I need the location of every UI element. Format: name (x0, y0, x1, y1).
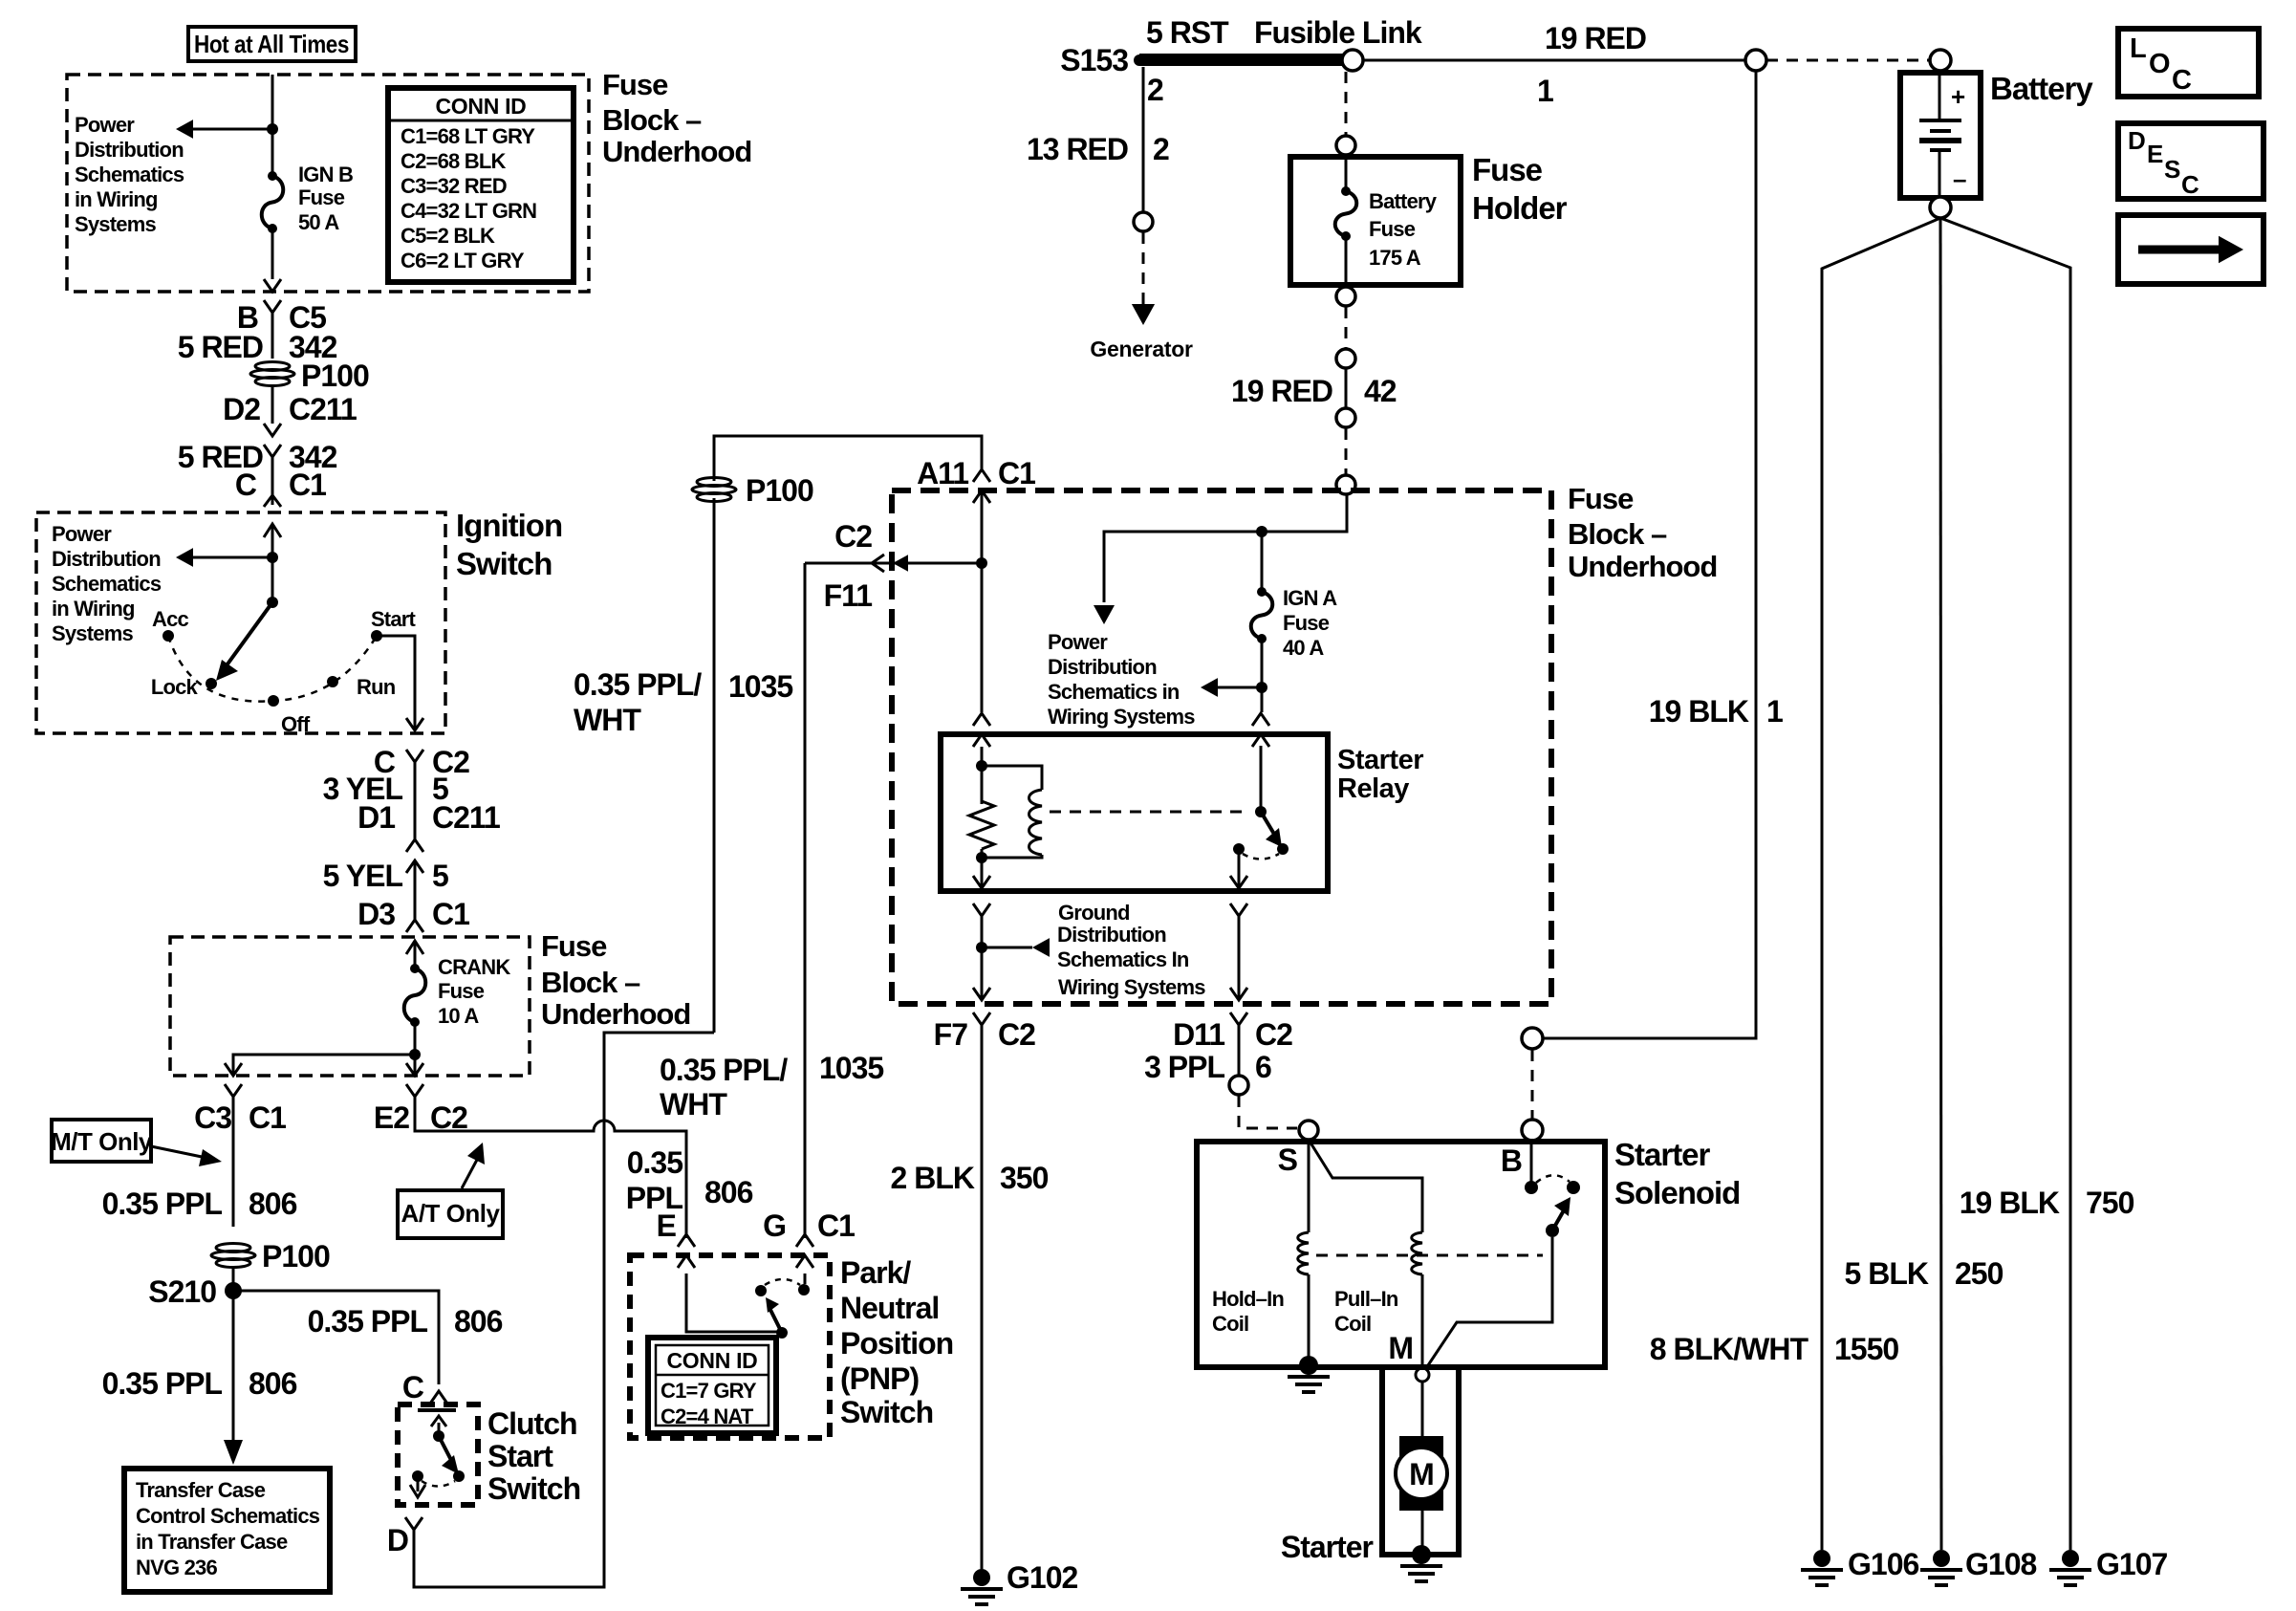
svg-text:D11: D11 (1173, 1017, 1224, 1052)
label: Park/Neutral Position (PNP) Switch (840, 1255, 953, 1429)
svg-text:S: S (2164, 155, 2180, 184)
svg-text:Battery: Battery (1990, 71, 2093, 106)
svg-text:Schematics: Schematics (52, 572, 162, 596)
svg-text:Transfer Case: Transfer Case (136, 1478, 266, 1502)
svg-text:Start: Start (371, 607, 417, 631)
svg-text:1550: 1550 (1834, 1332, 1898, 1366)
svg-text:Relay: Relay (1337, 773, 1409, 804)
svg-text:S: S (1278, 1143, 1298, 1177)
svg-text:M: M (1388, 1331, 1413, 1365)
node: entry to fuse block (1336, 475, 1355, 494)
wire 13 RED down to generator (1142, 67, 1145, 212)
svg-text:2 BLK: 2 BLK (891, 1161, 975, 1195)
node + arrow to power distribution note (1256, 682, 1267, 693)
ignition switch box (dashed) (36, 512, 445, 733)
svg-text:CONN ID: CONN ID (435, 94, 526, 119)
svg-text:5: 5 (432, 859, 448, 893)
wire: fuse out tee (414, 1022, 417, 1076)
svg-text:WHT: WHT (660, 1087, 727, 1121)
node: junction (267, 123, 278, 135)
svg-text:Run: Run (357, 675, 396, 699)
wire F7 leg below relay (981, 916, 984, 1000)
label box: A/T Only (398, 1190, 503, 1238)
wire A11 leg down to relay (981, 490, 984, 712)
svg-text:Position: Position (840, 1326, 953, 1361)
svg-text:0.35: 0.35 (627, 1145, 682, 1180)
note: Ground Distribution Schematics In Wiring Systems (1057, 901, 1205, 999)
svg-text:P100: P100 (746, 473, 813, 508)
svg-text:806: 806 (249, 1366, 297, 1401)
svg-text:Wiring Systems: Wiring Systems (1058, 975, 1205, 999)
svg-text:Switch: Switch (840, 1395, 933, 1429)
connector C211 inline (264, 424, 281, 436)
ground G107 (2062, 1550, 2079, 1567)
svg-text:6: 6 (1255, 1050, 1271, 1084)
svg-text:Hot at All Times: Hot at All Times (194, 30, 349, 58)
svg-text:B: B (1501, 1143, 1522, 1178)
svg-text:Hold–In: Hold–In (1212, 1287, 1284, 1311)
svg-text:250: 250 (1955, 1256, 2004, 1291)
wire: D return to A11 riser (414, 1033, 714, 1587)
svg-text:806: 806 (249, 1186, 297, 1221)
svg-text:19 RED: 19 RED (1545, 21, 1646, 55)
wire: feed bus inside fuse block (1104, 494, 1347, 602)
wire 2 BLK 350 to G102 (981, 1025, 984, 1569)
dashed wire: link to fuse holder (1345, 72, 1348, 135)
relay output arrow at box bottom (right) (1238, 849, 1241, 888)
svg-text:C1: C1 (998, 456, 1035, 490)
svg-text:C211: C211 (432, 800, 500, 835)
arrow from A/T Only to E2 wire (462, 1160, 477, 1188)
node (267, 552, 278, 563)
svg-text:1035: 1035 (819, 1051, 883, 1085)
contact Acc (162, 630, 174, 642)
connector marks entering relay (right) (1252, 713, 1269, 726)
component box: Fuse Holder (1290, 157, 1461, 285)
solenoid switch arm (1552, 1210, 1564, 1230)
ground at starter (1412, 1545, 1431, 1564)
svg-text:Schematics in: Schematics in (1048, 680, 1180, 704)
svg-text:Block –: Block – (541, 966, 640, 999)
svg-text:Generator: Generator (1090, 337, 1193, 361)
node: C2/F11 tee (976, 557, 987, 569)
svg-text:C: C (235, 468, 257, 502)
wire 5 YEL 5 (414, 860, 417, 921)
solenoid actuation dashed line (1316, 1254, 1543, 1257)
svg-text:(PNP): (PNP) (840, 1361, 919, 1396)
wire into CRANK fuse (414, 941, 417, 969)
contact Start (371, 630, 382, 642)
svg-text:O: O (2149, 49, 2170, 79)
component box: Starter (1382, 1367, 1459, 1555)
PNP internals: E leg (686, 1274, 782, 1332)
positions arc (dashed) (168, 636, 377, 702)
relay coil (982, 766, 1042, 790)
svg-text:8 BLK/WHT: 8 BLK/WHT (1650, 1332, 1809, 1366)
svg-text:Pull–In: Pull–In (1334, 1287, 1398, 1311)
relay output arrow at box bottom (left) (981, 858, 984, 888)
wire from S210 to clutch start switch (233, 1291, 439, 1384)
svg-text:40 A: 40 A (1283, 636, 1324, 660)
svg-text:Distribution: Distribution (75, 138, 184, 162)
svg-text:0.35 PPL: 0.35 PPL (308, 1304, 428, 1339)
wire+arrow to power distribution (189, 556, 272, 559)
label: Fuse Block - Underhood (top) (602, 68, 751, 168)
svg-text:Wiring Systems: Wiring Systems (1048, 705, 1195, 729)
wire: Start output with arrow at box bottom (377, 636, 415, 730)
svg-text:M/T Only: M/T Only (51, 1127, 153, 1156)
node: S terminal (1299, 1121, 1318, 1140)
wire 19 BLK 1 from junction down to solenoid B (1544, 71, 1756, 1038)
svg-text:A11: A11 (917, 456, 968, 490)
component box: Starter Relay (941, 734, 1328, 891)
svg-text:Distribution: Distribution (1048, 655, 1157, 679)
node: fusible link right terminal (1342, 50, 1363, 71)
svg-text:Switch: Switch (456, 546, 552, 581)
svg-text:Coil: Coil (1334, 1312, 1371, 1336)
wire 0.35 PPL/WHT 1035 riser to P100 and A11 (713, 498, 716, 1033)
svg-text:–: – (1953, 164, 1966, 193)
wire D11 leg below relay (1238, 916, 1241, 1000)
svg-text:1: 1 (1766, 694, 1783, 729)
wire 3 YEL 5 (414, 762, 417, 839)
svg-text:C1=7 GRY: C1=7 GRY (661, 1379, 757, 1403)
wire+arrow to power distribution (189, 128, 272, 131)
svg-text:D2: D2 (223, 392, 260, 426)
svg-text:Schematics In: Schematics In (1057, 947, 1189, 971)
svg-text:Block –: Block – (602, 103, 702, 137)
svg-text:Fuse: Fuse (298, 185, 345, 209)
svg-text:Coil: Coil (1212, 1312, 1248, 1336)
svg-text:Underhood: Underhood (1568, 550, 1717, 583)
relay actuation dashed line (1050, 811, 1245, 814)
svg-text:5 BLK: 5 BLK (1845, 1256, 1929, 1291)
svg-text:C1=68 LT GRY: C1=68 LT GRY (401, 124, 535, 148)
svg-text:13 RED: 13 RED (1027, 132, 1128, 166)
svg-text:Fuse: Fuse (1568, 482, 1634, 515)
icon box: DESC (2118, 123, 2264, 199)
svg-text:Power: Power (52, 522, 112, 546)
svg-text:C1: C1 (249, 1100, 286, 1135)
svg-text:Power: Power (75, 113, 135, 137)
contact Off (268, 695, 279, 707)
svg-text:CONN ID: CONN ID (666, 1348, 757, 1373)
svg-text:Ground: Ground (1058, 901, 1130, 925)
svg-text:Neutral: Neutral (840, 1291, 939, 1325)
connector C1 pin C3 (left exit) (225, 1063, 242, 1076)
wire: hot feed (271, 75, 274, 176)
svg-text:50 A: 50 A (298, 210, 339, 234)
svg-text:Fusible Link: Fusible Link (1254, 15, 1422, 50)
svg-text:CRANK: CRANK (438, 955, 510, 979)
battery plates (1919, 119, 1961, 122)
relay coil branch node (981, 747, 984, 804)
svg-text:M: M (1409, 1457, 1434, 1491)
svg-text:Distribution: Distribution (1057, 923, 1166, 947)
svg-text:E2: E2 (374, 1100, 409, 1135)
label box: Hot at All Times (188, 27, 356, 61)
svg-text:Power: Power (1048, 630, 1108, 654)
svg-text:Holder: Holder (1472, 190, 1568, 226)
svg-text:Lock: Lock (151, 675, 199, 699)
svg-text:in Transfer Case: in Transfer Case (136, 1530, 288, 1554)
node + arrow to ground distribution note (976, 942, 987, 953)
clutch start switch box (dashed) (398, 1404, 478, 1505)
fuse IGN B 50 A (268, 171, 277, 181)
connector G into PNP (796, 1234, 813, 1247)
svg-text:C5=2 BLK: C5=2 BLK (401, 224, 495, 248)
arrow from M/T Only to wire (151, 1146, 206, 1158)
connector C1 pin C (264, 495, 281, 507)
svg-text:C2=68 BLK: C2=68 BLK (401, 149, 506, 173)
svg-text:G107: G107 (2096, 1547, 2167, 1581)
svg-text:Starter: Starter (1281, 1530, 1374, 1564)
label: Ignition Switch (456, 508, 562, 581)
svg-text:D3: D3 (357, 897, 395, 931)
svg-text:C2: C2 (834, 519, 872, 554)
contact Run (327, 676, 338, 687)
svg-text:C6=2 LT GRY: C6=2 LT GRY (401, 249, 525, 272)
svg-text:5 RST: 5 RST (1146, 15, 1229, 50)
ground G106 (1813, 1550, 1830, 1567)
fuse IGN A 40 A (1257, 587, 1267, 597)
svg-text:C3: C3 (194, 1100, 231, 1135)
svg-text:5 RED: 5 RED (178, 330, 263, 364)
svg-text:F7: F7 (934, 1017, 968, 1052)
connector P100 lower (211, 1244, 255, 1268)
wire 0.35 PPL/WHT 1035 (to PNP G) (804, 563, 807, 1238)
svg-text:in Wiring: in Wiring (52, 597, 135, 620)
wire E2 to PNP switch E with hop over riser (415, 1097, 686, 1238)
PNP G leg (804, 1274, 807, 1284)
node: 19 RED junction (1745, 50, 1766, 71)
wire motor to ground (1421, 1511, 1424, 1549)
wire 3 PPL 6 (1238, 1025, 1241, 1076)
svg-text:WHT: WHT (574, 703, 641, 737)
connector C2 pin E2 (right exit) (406, 1063, 423, 1076)
svg-text:C2: C2 (1255, 1017, 1292, 1052)
fuse block underhood box1 (dashed) (67, 75, 589, 292)
svg-text:Park/: Park/ (840, 1255, 911, 1290)
clutch switch contacts (418, 1408, 456, 1412)
svg-text:Battery: Battery (1369, 189, 1438, 213)
ground G102 (973, 1569, 990, 1586)
connector P100 (middle) (692, 478, 736, 502)
svg-text:G108: G108 (1965, 1547, 2036, 1581)
svg-text:Systems: Systems (52, 621, 133, 645)
svg-text:+: + (1951, 82, 1965, 111)
svg-text:10 A: 10 A (438, 1004, 479, 1028)
svg-text:Clutch: Clutch (487, 1406, 577, 1441)
svg-text:3 PPL: 3 PPL (1144, 1050, 1224, 1084)
svg-text:Underhood: Underhood (541, 997, 690, 1031)
svg-text:806: 806 (704, 1175, 753, 1209)
svg-text:C2=4 NAT: C2=4 NAT (661, 1404, 754, 1428)
connector P100 upper (250, 362, 294, 386)
wire M to motor (1421, 1382, 1424, 1436)
wire 5 RED 342 (upper) (271, 313, 274, 359)
svg-text:NVG 236: NVG 236 (136, 1556, 217, 1579)
svg-text:G106: G106 (1848, 1547, 1918, 1581)
fuse CRANK 10 A (410, 964, 420, 973)
svg-text:1035: 1035 (728, 669, 792, 704)
svg-text:Distribution: Distribution (52, 547, 161, 571)
relay contacts + dashed arc (1233, 843, 1245, 855)
svg-text:in Wiring: in Wiring (75, 187, 158, 211)
wire 5 RED 342 (lower) (271, 457, 274, 505)
connector C211 inline (yel) (406, 839, 423, 852)
component box: Transfer Case Control Schematics in Transfer Case NVG 236 (124, 1469, 330, 1592)
connector C5 pin B (264, 279, 281, 292)
svg-text:2: 2 (1147, 73, 1163, 107)
svg-text:19 BLK: 19 BLK (1649, 694, 1749, 729)
PNP contacts + dashed arc (755, 1285, 767, 1296)
svg-text:750: 750 (2086, 1186, 2134, 1220)
note: Power Distribution Schematics in Wiring Systems (1048, 630, 1195, 729)
fuse block underhood box3 (dashed, main) (892, 490, 1551, 1004)
label: Fuse Block - Underhood (main) (1568, 482, 1717, 583)
wire: fuse out (271, 229, 274, 279)
svg-text:P100: P100 (301, 359, 369, 393)
ground G108 (1933, 1550, 1950, 1567)
svg-text:Ignition: Ignition (456, 508, 562, 543)
wire 19 RED 42 chain below holder (1336, 287, 1355, 306)
svg-text:Start: Start (487, 1439, 553, 1473)
svg-text:C1: C1 (432, 897, 469, 931)
connector C2 pin C (406, 750, 423, 762)
svg-text:1: 1 (1537, 74, 1553, 108)
note: Power Distribution Schematics (box1) (75, 113, 184, 236)
svg-text:Fuse: Fuse (438, 979, 485, 1003)
svg-text:42: 42 (1364, 374, 1397, 408)
connector D11/C2 exit (1230, 988, 1247, 1000)
connector F7/C2 exit (973, 988, 990, 1000)
svg-text:D: D (387, 1523, 408, 1557)
wire: feed into switch (271, 524, 274, 602)
motor M symbol (1399, 1436, 1443, 1511)
svg-text:F11: F11 (824, 578, 873, 613)
svg-text:Starter: Starter (1614, 1137, 1711, 1172)
svg-text:Solenoid: Solenoid (1614, 1175, 1740, 1210)
svg-text:E: E (2147, 140, 2163, 168)
contact Lock (206, 678, 217, 689)
svg-text:Off: Off (281, 712, 311, 736)
fuse block underhood box2 (dashed, CRANK) (170, 937, 530, 1076)
relay resistor (969, 801, 994, 849)
svg-text:0.35 PPL: 0.35 PPL (102, 1366, 223, 1401)
label box: M/T Only (51, 1120, 153, 1162)
wire 0.35 PPL 806 (upper MT) (232, 1097, 235, 1227)
svg-text:Fuse: Fuse (1283, 611, 1330, 635)
icon box: LOC (2118, 29, 2259, 97)
svg-text:Control Schematics: Control Schematics (136, 1504, 320, 1528)
svg-text:C1: C1 (817, 1208, 855, 1243)
svg-text:IGN A: IGN A (1283, 586, 1337, 610)
svg-text:Starter: Starter (1337, 745, 1423, 775)
CONN ID table 1 (388, 88, 574, 282)
node: battery negative (1930, 197, 1951, 218)
svg-text:D: D (2128, 126, 2145, 155)
svg-text:C: C (402, 1370, 424, 1404)
svg-text:C: C (2172, 65, 2192, 96)
node: switch pivot (267, 597, 278, 608)
svg-text:L: L (2130, 33, 2146, 64)
relay switch common (1260, 746, 1263, 812)
dashed wire to solenoid S (1239, 1096, 1297, 1128)
svg-text:0.35 PPL: 0.35 PPL (102, 1186, 223, 1221)
svg-text:806: 806 (454, 1304, 503, 1339)
svg-text:P100: P100 (262, 1239, 330, 1274)
node: IGN A tap (1256, 526, 1267, 537)
connector marks entering relay (left) (973, 713, 990, 726)
ground at solenoid case (1299, 1356, 1318, 1375)
svg-text:Fuse: Fuse (602, 68, 668, 101)
CONN ID table 2 (648, 1338, 776, 1433)
svg-text:A/T Only: A/T Only (401, 1199, 501, 1228)
note: Power Distribution Schematics (ignition) (52, 522, 162, 645)
svg-text:C4=32 LT GRN: C4=32 LT GRN (401, 199, 536, 223)
fuse: Battery Fuse 175 A (1341, 186, 1351, 196)
dashed wire to battery (1766, 59, 1930, 62)
svg-text:S153: S153 (1060, 43, 1128, 77)
PNP moving contact arm (770, 1310, 782, 1333)
svg-text:C211: C211 (289, 392, 357, 426)
connector C1 pin D3 (406, 920, 423, 932)
svg-text:Systems: Systems (75, 212, 156, 236)
battery ground feeders (1822, 218, 1940, 1550)
svg-text:C1: C1 (289, 468, 326, 502)
svg-text:19 BLK: 19 BLK (1960, 1186, 2060, 1220)
switch arm arrow (227, 602, 272, 665)
label: Fuse Block - Underhood (crank) (541, 929, 690, 1031)
svg-text:Fuse: Fuse (1369, 217, 1416, 241)
svg-text:Acc: Acc (152, 607, 189, 631)
hold-in coil leg (1308, 1140, 1310, 1232)
svg-text:0.35 PPL/: 0.35 PPL/ (660, 1053, 788, 1087)
svg-text:IGN B: IGN B (298, 163, 353, 186)
svg-text:175 A: 175 A (1369, 246, 1421, 270)
connector A11 entering fuse block (973, 469, 990, 482)
svg-text:E: E (657, 1208, 677, 1243)
wire C2/F11 horizontal (805, 562, 982, 565)
svg-text:Block –: Block – (1568, 517, 1667, 551)
svg-text:350: 350 (1000, 1161, 1049, 1195)
wire from switch to M terminal (1426, 1237, 1552, 1368)
wire 19 RED to right (1363, 59, 1745, 62)
pull-in coil leg (1309, 1140, 1422, 1232)
svg-text:5 YEL: 5 YEL (323, 859, 403, 893)
svg-text:G102: G102 (1007, 1560, 1077, 1595)
icon box: forward arrow (2118, 215, 2264, 284)
svg-text:19 RED: 19 RED (1231, 374, 1332, 408)
svg-text:G: G (763, 1208, 786, 1243)
svg-text:2: 2 (1153, 132, 1169, 166)
component box: Starter Solenoid (1197, 1142, 1605, 1367)
svg-text:0.35 PPL/: 0.35 PPL/ (574, 667, 702, 702)
svg-text:Switch: Switch (487, 1471, 580, 1506)
svg-text:C: C (2181, 170, 2199, 199)
svg-text:C2: C2 (998, 1017, 1035, 1052)
PNP switch box (dashed) (630, 1255, 830, 1438)
svg-text:Schematics: Schematics (75, 163, 184, 186)
svg-text:S210: S210 (148, 1274, 216, 1309)
svg-text:Underhood: Underhood (602, 135, 751, 168)
splice S210 (225, 1282, 242, 1299)
svg-text:C3=32 RED: C3=32 RED (401, 174, 507, 198)
connector E into PNP (678, 1234, 695, 1247)
svg-text:D1: D1 (357, 800, 395, 835)
component box: Battery (1930, 50, 1951, 71)
